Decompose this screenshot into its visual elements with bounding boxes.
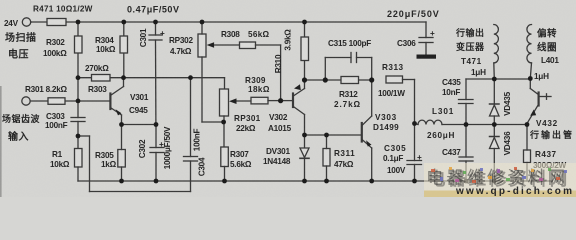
wire C302 stubs <box>155 125 157 182</box>
transistor V432 <box>527 79 551 124</box>
node V302.c-DV301 <box>302 133 307 138</box>
wire R302 column <box>77 22 79 118</box>
wire RP302 column <box>202 22 224 122</box>
wire R301 input <box>30 21 32 23</box>
node R312-R313-V303.c <box>369 77 374 82</box>
wire input to base <box>30 100 110 102</box>
transistor V302 <box>281 80 305 135</box>
node VD435-VD436 <box>492 122 497 127</box>
wire output mid horizontal <box>442 124 527 126</box>
capacitor C301 <box>149 35 162 40</box>
node gnd C437 <box>464 179 469 184</box>
scan edge streak <box>0 86 2 197</box>
diode VD435 <box>490 79 500 125</box>
wire R310 column <box>304 22 306 80</box>
wire R1 bottom to ground rail <box>77 167 79 181</box>
node rail-R304 <box>121 20 126 25</box>
node V432.e-R437 <box>525 122 530 127</box>
paper noise overlay <box>0 0 1 1</box>
node V301.e <box>119 122 124 127</box>
wire emitter node horizontal <box>122 124 157 126</box>
resistor R1 <box>75 149 83 168</box>
capacitor C306 <box>419 38 433 55</box>
wire C435 column <box>465 79 467 181</box>
node R311 top <box>324 133 329 138</box>
wire R305 stubs <box>121 125 123 182</box>
node C303-R1 <box>76 134 81 139</box>
wire V303 base line <box>305 134 362 136</box>
wire RP301 bottom <box>223 116 225 147</box>
wire C306 drop from rail <box>425 22 427 38</box>
node gnd DV301 <box>302 179 307 184</box>
wire C301 column <box>155 22 157 125</box>
watermark cream wash <box>424 163 576 191</box>
node gnd C305 <box>412 179 417 184</box>
wire R311 stubs <box>326 135 328 181</box>
wire R304 column <box>123 22 125 78</box>
node C435-C437 <box>464 122 469 127</box>
node gnd C302 <box>154 179 159 184</box>
capacitor C305 <box>407 161 422 165</box>
resistor R303 <box>92 75 111 82</box>
wire driver horizontal <box>305 79 372 81</box>
node C304 top <box>188 75 193 80</box>
wire mid horizontal to RP301 <box>124 78 225 89</box>
node L401-V432.c <box>528 76 533 81</box>
node input terminal <box>22 97 30 105</box>
node C301-C302 <box>154 122 159 127</box>
wire C303 to R1 <box>77 122 79 149</box>
ground bar under C306 <box>417 55 437 59</box>
inductor L401 deflection coil <box>527 25 532 79</box>
wire R307 bottom <box>224 167 226 182</box>
capacitor C435 <box>459 100 474 104</box>
resistor R305 <box>118 150 126 168</box>
wire R308 to V302 base <box>256 45 281 101</box>
resistor R311 <box>323 149 330 167</box>
wire top supply rail <box>31 21 426 23</box>
resistor R471 <box>47 19 66 26</box>
node 24V terminal <box>22 18 30 26</box>
capacitor C302 <box>150 148 164 153</box>
node T471-VD435 <box>492 77 497 82</box>
resistor R301 <box>48 98 65 105</box>
capacitor C437 <box>459 157 473 161</box>
resistor R310 <box>301 37 309 61</box>
node R301-V301.b <box>76 99 81 104</box>
node gnd R305 <box>119 179 124 184</box>
diode DV301 <box>300 148 309 158</box>
wire R313 to output column <box>403 80 415 182</box>
transistor V303 <box>362 80 372 181</box>
polarity marks <box>159 29 435 162</box>
node gnd R307 <box>222 179 227 184</box>
resistor R307 <box>221 147 229 167</box>
watermark yellow bar <box>424 191 576 198</box>
resistor R302 <box>75 36 83 53</box>
node R313-L301 <box>412 121 417 126</box>
transformer T471 coil <box>494 25 499 80</box>
resistor R308 <box>240 42 256 49</box>
wire R309 right <box>268 100 281 102</box>
wire ground rail <box>78 180 552 182</box>
watermark speckle noise <box>431 167 567 183</box>
watermark bottom right <box>424 163 576 197</box>
capacitor C315 loop <box>325 53 371 81</box>
wire R437 stubs <box>526 125 528 182</box>
resistor R312 <box>341 77 359 84</box>
node gnd VD436 <box>492 179 497 184</box>
wire feedback line <box>78 136 191 192</box>
node R302-R303 <box>76 75 81 80</box>
node R304-R303-V301.c <box>121 75 126 80</box>
resistor R313 <box>386 76 403 83</box>
capacitor C303 <box>71 118 85 122</box>
wire DV301 column <box>304 135 306 181</box>
inductor L301 <box>415 120 443 124</box>
wire C304 column <box>190 78 192 192</box>
potentiometer RP302 <box>198 34 240 57</box>
node rail-R302 <box>76 20 81 25</box>
node C315-R312 <box>323 77 328 82</box>
node rail-C301 <box>153 20 158 25</box>
node R310-V302.e <box>302 77 307 82</box>
capacitor C304 <box>184 157 198 162</box>
wire flyback top horizontal <box>466 78 530 80</box>
potentiometer RP301 <box>220 89 252 116</box>
node R308-V302.b <box>278 98 283 103</box>
node rail-RP302 <box>200 20 205 25</box>
node rail-R310 <box>302 20 307 25</box>
node RP301-R307 <box>221 120 226 125</box>
node gnd R311 <box>324 179 329 184</box>
transistor V301 <box>110 78 123 125</box>
resistor R309 <box>251 97 268 104</box>
diode VD436 <box>490 125 500 182</box>
wire R303 branch <box>78 77 124 79</box>
node gnd V303.e <box>369 179 374 184</box>
resistor R304 <box>120 36 128 53</box>
resistor R437 <box>524 150 531 163</box>
